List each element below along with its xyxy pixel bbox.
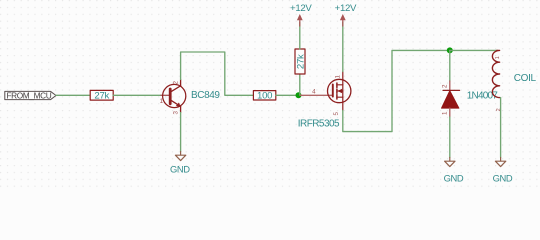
pin 4 (gate) of Q2	[300, 94, 333, 96]
svg-text:100: 100	[257, 91, 272, 102]
wire Q2 source down, right and up to top rail	[343, 50, 450, 131]
svg-text:COIL: COIL	[514, 73, 537, 84]
svg-text:1: 1	[442, 111, 449, 115]
resistor R1 27k (horizontal)	[90, 90, 113, 101]
svg-text:27k: 27k	[94, 91, 109, 102]
svg-text:BC849: BC849	[191, 90, 220, 101]
ground (under D1)	[445, 158, 455, 167]
wire junction down to D1	[449, 50, 451, 81]
wire junction to coil	[450, 49, 498, 51]
wire Q1 emitter to GND	[180, 113, 182, 152]
node junction (gate / R3)	[296, 92, 302, 98]
svg-text:5: 5	[333, 112, 340, 116]
global label FROM_MCU	[5, 90, 56, 100]
ground (under COIL)	[495, 158, 505, 167]
inductor L1 COIL	[492, 50, 499, 97]
svg-text:GND: GND	[170, 164, 190, 175]
svg-text:1: 1	[335, 75, 342, 79]
wire R3 to +12V	[299, 22, 301, 49]
wire Q2 drain(top) to +12V	[342, 22, 344, 72]
diode D1 1N4007	[441, 90, 459, 108]
resistor R3 27k (vertical)	[295, 49, 306, 74]
svg-text:1: 1	[495, 56, 501, 59]
resistor R2 100 (horizontal)	[253, 91, 275, 102]
power +12V (right)	[335, 3, 357, 26]
wire junction up to R3	[299, 74, 301, 95]
svg-text:FROM_MCU: FROM_MCU	[6, 90, 51, 100]
node junction (diode / coil rail)	[447, 47, 453, 53]
svg-text:2: 2	[173, 81, 180, 85]
pin 1 of D1	[449, 108, 451, 117]
wire D1 to GND	[449, 117, 451, 158]
svg-text:IRFR5305: IRFR5305	[298, 118, 340, 129]
transistor Q1 BC849	[163, 80, 186, 113]
pin 1 of Q1	[161, 94, 169, 96]
svg-text:1N4007: 1N4007	[467, 91, 498, 102]
wire label to R1	[56, 94, 90, 96]
pin 2 of D1	[449, 81, 451, 90]
svg-text:+12V: +12V	[335, 3, 357, 14]
power +12V (left)	[290, 3, 312, 26]
svg-text:GND: GND	[493, 172, 513, 183]
ground (under Q1)	[175, 152, 185, 161]
svg-text:GND: GND	[444, 172, 464, 183]
wire R1 to Q1 base	[113, 94, 161, 96]
svg-text:3: 3	[173, 111, 180, 115]
svg-text:+12V: +12V	[290, 3, 312, 14]
svg-text:2: 2	[442, 84, 449, 88]
svg-text:4: 4	[312, 88, 316, 95]
wire COIL to GND	[500, 98, 502, 158]
transistor Q2 IRFR5305 (P-MOSFET)	[328, 72, 351, 111]
wire Q1 collector jog up and over	[181, 52, 254, 95]
wire R2 to junction	[276, 94, 298, 96]
svg-text:27k: 27k	[295, 54, 306, 69]
